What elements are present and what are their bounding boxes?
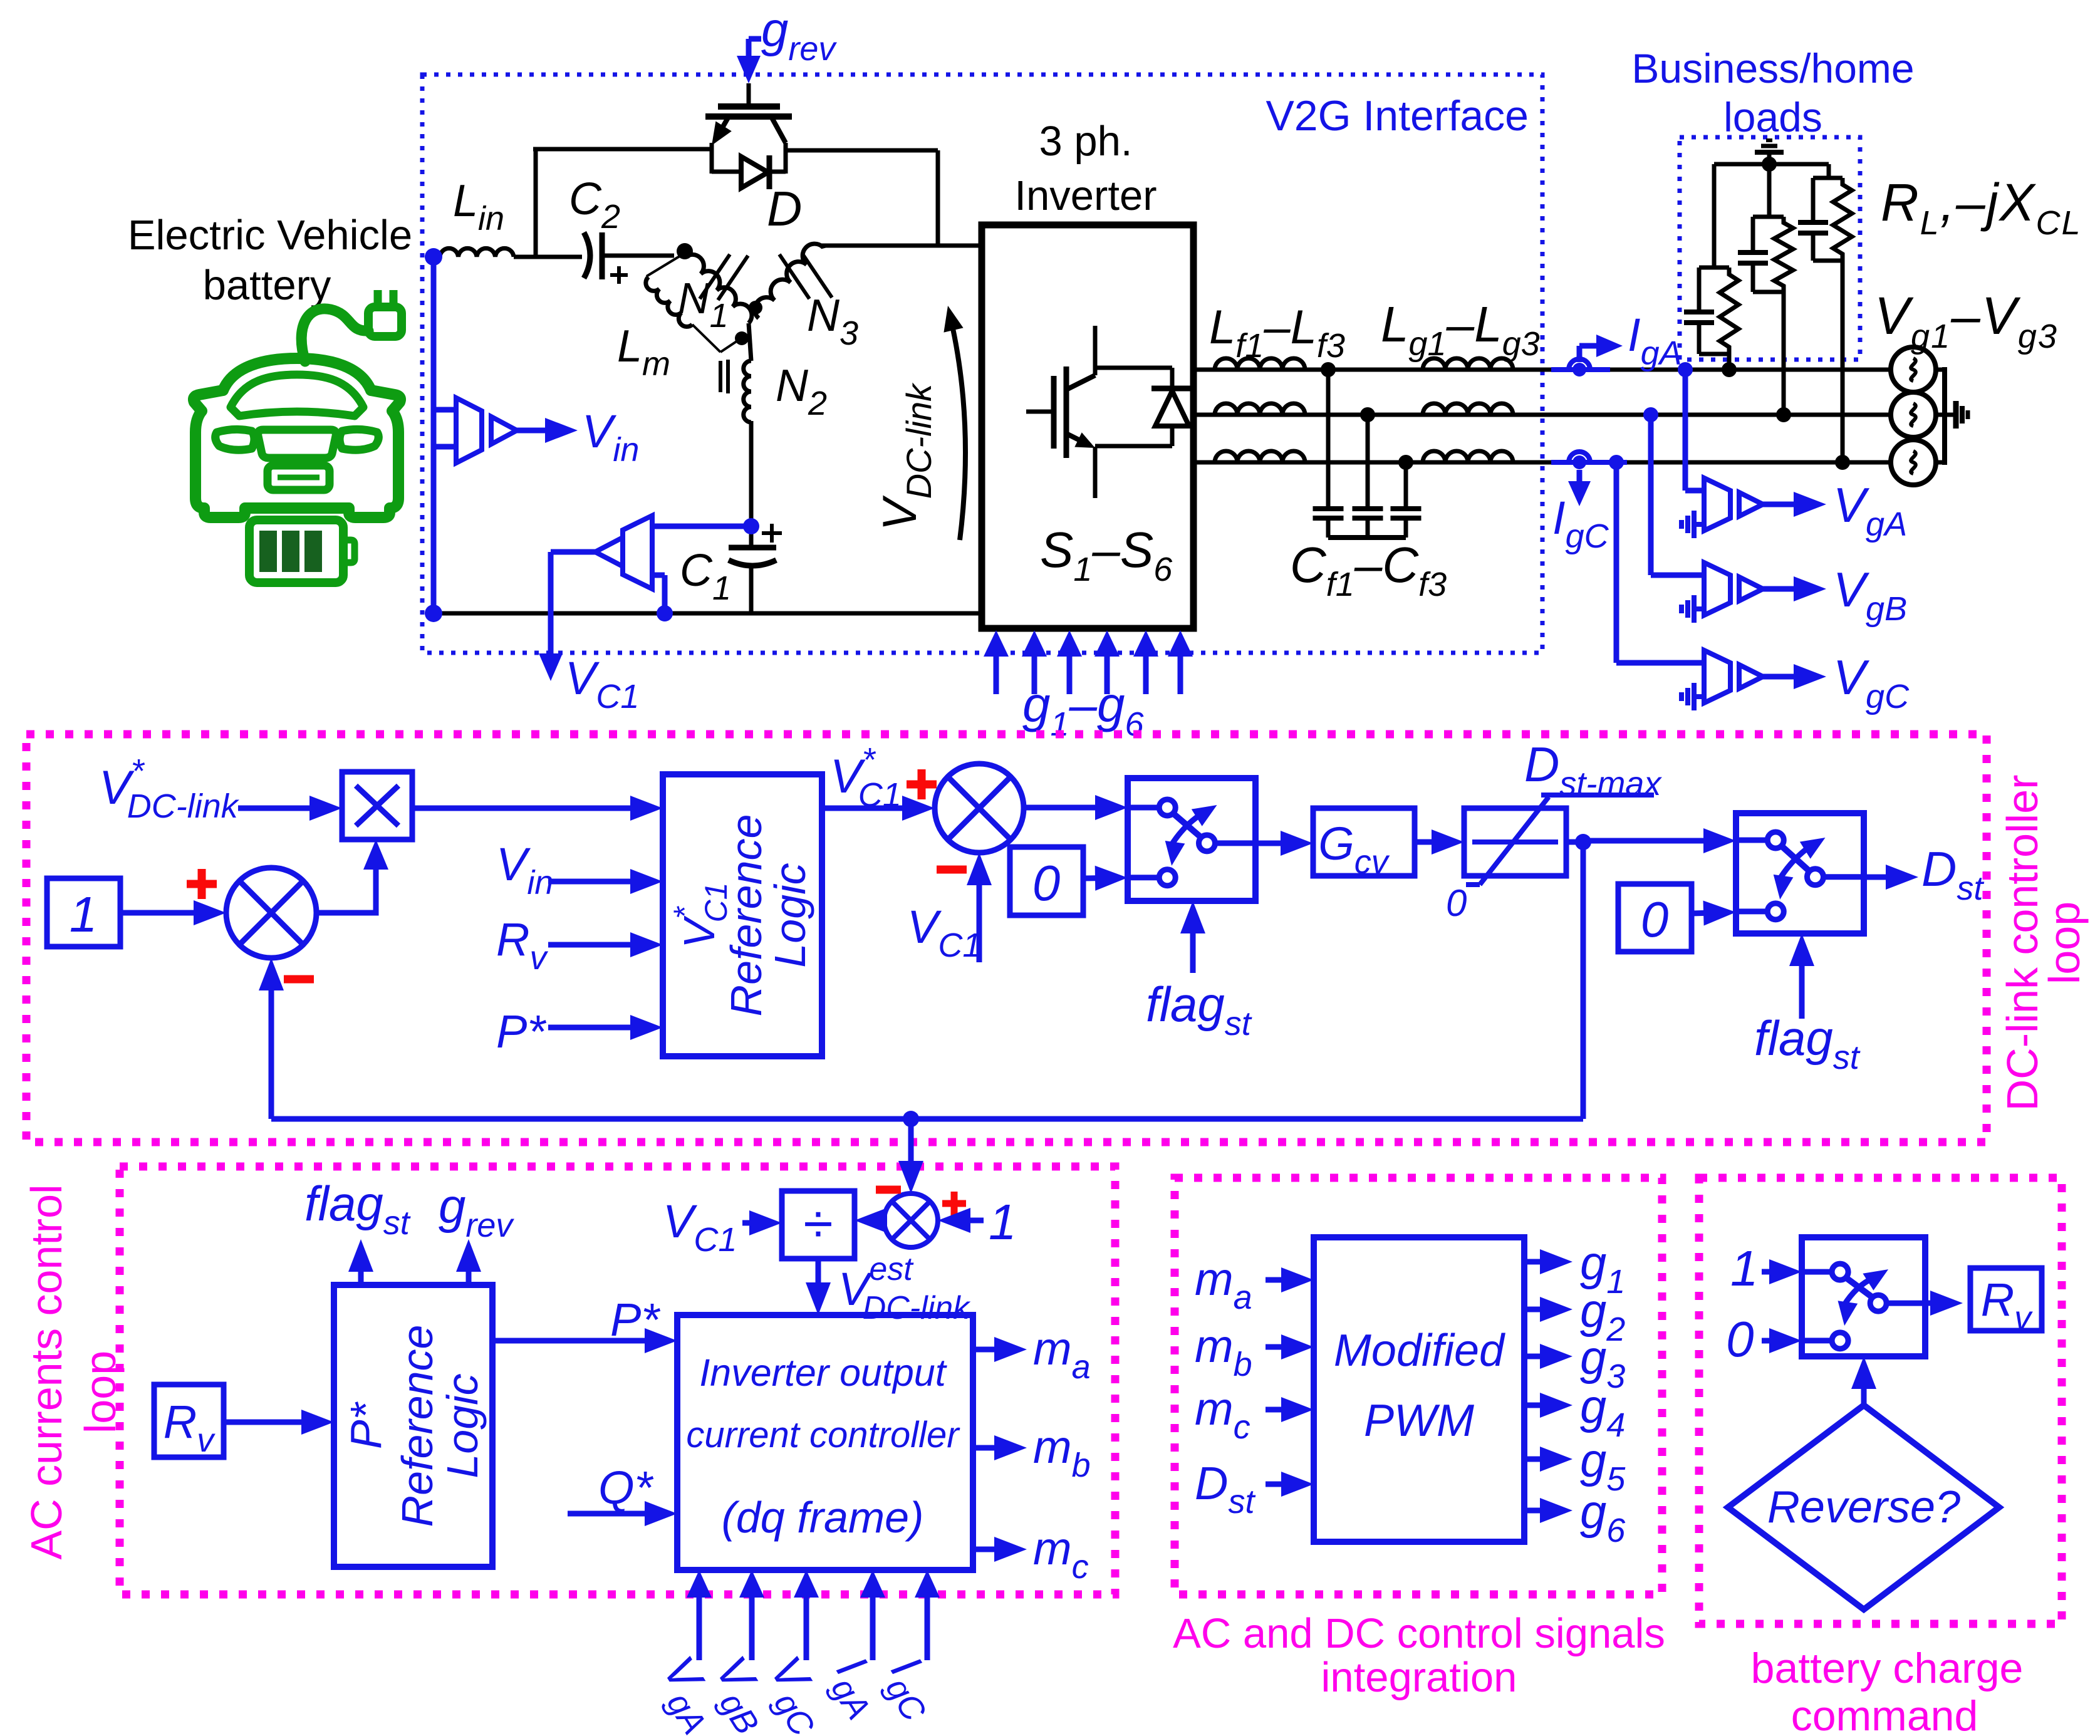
svg-text:Logic: Logic <box>766 863 814 967</box>
svg-text:Inverter output: Inverter output <box>699 1351 947 1394</box>
svg-text:0: 0 <box>1641 891 1669 947</box>
svg-text:P*: P* <box>610 1294 660 1346</box>
svg-text:V2G Interface: V2G Interface <box>1266 92 1529 140</box>
svg-text:0: 0 <box>1446 882 1467 924</box>
svg-text:1: 1 <box>70 886 98 942</box>
svg-text:command: command <box>1791 1692 1978 1736</box>
svg-text:D: D <box>767 181 802 236</box>
svg-text:current controller: current controller <box>686 1415 960 1455</box>
svg-text:Reference: Reference <box>722 814 771 1017</box>
svg-text:loop: loop <box>2040 902 2089 984</box>
svg-text:integration: integration <box>1321 1654 1517 1701</box>
svg-text:Logic: Logic <box>438 1373 487 1478</box>
svg-text:Reverse?: Reverse? <box>1767 1482 1960 1532</box>
svg-text:AC currents control: AC currents control <box>22 1184 71 1559</box>
svg-text:P*: P* <box>496 1006 546 1058</box>
svg-text:loop: loop <box>76 1351 125 1433</box>
svg-text:battery charge: battery charge <box>1751 1645 2024 1692</box>
svg-text:Modified: Modified <box>1334 1326 1505 1376</box>
svg-text:÷: ÷ <box>803 1194 833 1254</box>
svg-text:(dq frame): (dq frame) <box>722 1493 924 1542</box>
svg-text:0: 0 <box>1726 1311 1754 1367</box>
svg-text:Reference: Reference <box>393 1325 442 1527</box>
svg-text:battery: battery <box>203 262 331 309</box>
svg-text:PWM: PWM <box>1364 1396 1474 1446</box>
svg-text:1: 1 <box>989 1194 1017 1250</box>
svg-text:Business/home: Business/home <box>1631 45 1914 91</box>
svg-text:Electric Vehicle: Electric Vehicle <box>128 212 412 259</box>
svg-text:P*: P* <box>341 1401 390 1449</box>
svg-text:AC and DC control signals: AC and DC control signals <box>1173 1610 1665 1657</box>
svg-text:3 ph.: 3 ph. <box>1039 118 1132 165</box>
svg-text:loads: loads <box>1723 94 1822 140</box>
svg-text:0: 0 <box>1032 855 1061 911</box>
svg-text:1: 1 <box>1730 1240 1759 1296</box>
svg-text:Inverter: Inverter <box>1014 172 1157 219</box>
